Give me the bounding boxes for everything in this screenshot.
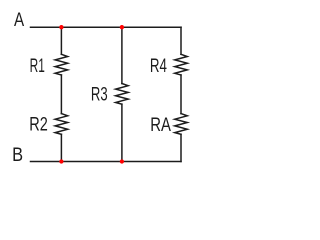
wire: right branch middle lead	[180, 75, 182, 114]
junction node top-middle	[120, 25, 124, 29]
resistor R3	[116, 84, 128, 105]
wire: right branch upper lead	[180, 27, 182, 54]
svg-text:R2: R2	[29, 115, 48, 136]
resistor R1	[55, 54, 68, 75]
wire: left branch upper lead	[60, 27, 62, 54]
wire: right branch lower lead	[180, 134, 182, 161]
wire: left branch lower lead	[60, 134, 62, 161]
resistor RA	[175, 114, 188, 135]
wire: bottom rail from node B to right corner	[31, 161, 182, 163]
junction node bottom-middle	[120, 159, 124, 163]
svg-text:R4: R4	[150, 56, 167, 77]
junction node bottom-left	[59, 159, 63, 163]
svg-text:R1: R1	[30, 56, 45, 77]
svg-text:R3: R3	[91, 85, 108, 106]
resistor R4	[175, 54, 188, 75]
wire: left branch middle lead	[60, 75, 62, 114]
wire: middle branch upper lead	[121, 27, 123, 83]
junction node top-left	[59, 25, 63, 29]
wire: middle branch lower lead	[121, 104, 123, 161]
svg-text:A: A	[14, 10, 24, 31]
resistor R2	[55, 114, 68, 135]
svg-text:B: B	[12, 145, 23, 166]
wire: top rail from node A to right corner	[31, 26, 182, 28]
svg-text:RA: RA	[150, 115, 171, 136]
